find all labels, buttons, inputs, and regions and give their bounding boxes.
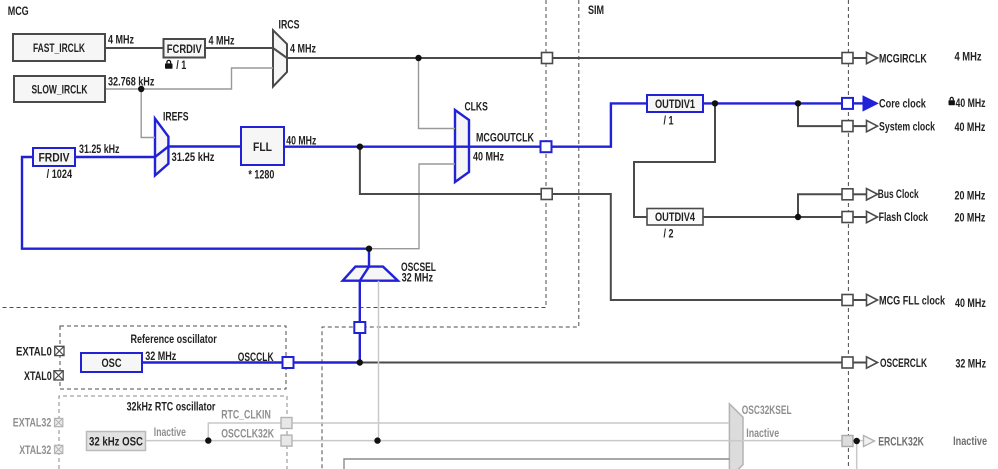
lock icon Core clock [949,97,955,105]
wire FAST_IRCLK to FCRDIV [105,47,164,49]
wire IRCS branch to CLKS input 1 [419,58,456,129]
svg-text:FCRDIV: FCRDIV [167,42,202,56]
connector square MCGOUTCLK blue [541,141,552,152]
junction dot Core/System split [795,100,801,106]
connector square OSCCLK at reference oscillator boundary [283,357,294,368]
svg-text:32 MHz: 32 MHz [956,357,987,371]
svg-text:RTC_CLKIN: RTC_CLKIN [221,408,271,422]
wire Bus Clock stub to arrow [854,193,867,195]
svg-text:Reference oscillator: Reference oscillator [131,332,218,346]
box OUTDIV1 [647,95,703,112]
wire SLOW_IRCLK to IRCS [105,68,273,89]
junction dot OUTDIV1 out to OUTDIV4 [712,100,718,106]
svg-text:40 MHz: 40 MHz [955,296,986,310]
svg-text:/ 1024: / 1024 [47,167,73,181]
svg-text:XTAL32: XTAL32 [19,443,51,457]
svg-text:32 MHz: 32 MHz [402,270,433,284]
svg-text:40 MHz: 40 MHz [956,96,986,110]
svg-text:OSCCLK: OSCCLK [238,350,274,364]
svg-text:OSC32KSEL: OSC32KSEL [742,403,792,417]
svg-text:FRDIV: FRDIV [39,151,70,165]
wire IRCS internal route [273,48,287,58]
arrow Bus Clock [867,189,878,200]
svg-text:XTAL0: XTAL0 [24,369,52,383]
SIM region dashed border [322,0,579,469]
connector square on OSCSEL riser at boundary [354,322,365,333]
mux IRCS [273,30,287,86]
box FCRDIV [164,39,206,58]
svg-text:20 MHz: 20 MHz [955,189,986,203]
svg-text:ERCLK32K: ERCLK32K [878,435,924,449]
svg-text:CLKS: CLKS [465,100,488,114]
svg-text:/ 1: / 1 [664,113,674,127]
wire System clock stub to arrow [854,125,867,127]
arrow System clock [867,120,878,131]
box 32 kHz OSC [87,432,146,451]
wire RTC_CLKIN branch [208,423,729,441]
box OUTDIV4 [647,209,703,226]
junction dot MCGIRCLK to CLKS branch [415,55,421,61]
svg-text:SLOW_IRCLK: SLOW_IRCLK [32,83,88,97]
svg-text:FAST_IRCLK: FAST_IRCLK [33,41,85,55]
junction dot OSCCLK32K to OSCSEL branch [374,437,380,443]
Reference oscillator dashed box [60,326,286,389]
svg-text:OUTDIV4: OUTDIV4 [655,210,695,224]
mux CLKS [455,110,469,182]
svg-text:Bus Clock: Bus Clock [878,187,919,201]
svg-text:MCG: MCG [8,4,29,18]
wire MCG FLL clock stub to arrow [854,299,867,301]
svg-text:MCG FLL clock: MCG FLL clock [879,294,945,308]
svg-text:/ 1: / 1 [176,58,186,72]
svg-text:MCGOUTCLK: MCGOUTCLK [476,130,534,144]
junction dot 32 kHz OSC output split [205,437,211,443]
SIM output boundary dashed line [847,0,849,469]
svg-text:OSCERCLK: OSCERCLK [880,356,927,370]
wire OSCSEL input 2 from OSCCLK32K [378,281,380,441]
svg-text:Inactive: Inactive [154,425,186,439]
svg-text:32kHz RTC oscillator: 32kHz RTC oscillator [127,400,216,414]
svg-text:4 MHz: 4 MHz [955,49,982,63]
svg-text:SIM: SIM [588,3,604,17]
svg-text:Core clock: Core clock [879,97,926,111]
junction dot Bus/Flash split [795,214,801,220]
wire OSCERCLK stub to arrow [854,362,867,364]
svg-text:OSCCLK32K: OSCCLK32K [221,427,274,441]
connector square RTC_CLKIN [281,418,292,429]
svg-text:20 MHz: 20 MHz [955,211,986,225]
svg-text:32.768 kHz: 32.768 kHz [108,74,154,88]
svg-text:OUTDIV1: OUTDIV1 [655,97,695,111]
arrow OSCERCLK [867,357,878,368]
lock icon FCRDIV [165,60,173,68]
arrow ERCLK32K [864,436,875,447]
arrow Flash Clock [867,211,878,222]
svg-text:40 MHz: 40 MHz [955,120,986,134]
svg-text:/ 2: / 2 [664,227,674,241]
wire FLL output branch to MCG FLL clock [360,147,842,300]
svg-text:Inactive: Inactive [746,426,779,440]
svg-text:4 MHz: 4 MHz [290,42,316,56]
arrow MCGIRCLK [867,52,878,63]
wire OUTDIV4 input [634,103,715,217]
wire SLOW_IRCLK branch to IREFS [141,89,155,138]
box FRDIV [33,148,75,166]
wire Bus Clock branch [798,194,842,217]
mux OSC32KSEL [729,404,743,469]
svg-text:System clock: System clock [879,120,935,134]
svg-text:MCGIRCLK: MCGIRCLK [879,51,927,65]
svg-text:31.25 kHz: 31.25 kHz [172,150,215,164]
wire OSCSEL branch to CLKS input 3 [369,164,455,249]
mux OSCSEL [343,267,398,281]
box FAST_IRCLK [13,34,105,61]
svg-text:32 kHz OSC: 32 kHz OSC [89,434,143,448]
box OSC [81,353,142,372]
wire OSC32KSEL input 3 [344,459,729,469]
svg-text:4 MHz: 4 MHz [108,33,134,47]
junction dot SLOW_IRCLK split [138,86,144,92]
arrow Core clock (blue filled) [863,96,878,111]
arrow MCG FLL clock [867,294,878,305]
svg-text:40 MHz: 40 MHz [473,149,504,163]
connector square Flash Clock output [842,212,853,223]
svg-text:40 MHz: 40 MHz [286,133,316,147]
wire OSC output OSCCLK [142,361,360,363]
wire FCRDIV to IRCS [205,47,273,49]
wire OSCSEL output to FRDIV loop [22,157,369,249]
wire OUTDIV4 output to Flash Clock [703,216,842,218]
connector square OSCERCLK output [842,357,853,368]
connector square on MCG FLL net at MCG boundary [541,189,552,200]
mux IREFS [155,119,168,176]
svg-text:OSC: OSC [102,356,122,370]
wire MCGIRCLK stub to arrow [854,57,867,59]
connector square Core clock output [842,98,853,109]
wire System clock branch [798,103,842,126]
wire FLL to CLKS to OUTDIV1 [284,103,647,146]
wire Flash Clock stub to arrow [854,216,867,218]
wire 32 kHz OSC output OSCCLK32K net [146,440,863,442]
wire MCGIRCLK net [287,57,842,59]
32kHz RTC oscillator dashed box [59,396,287,469]
svg-text:EXTAL0: EXTAL0 [16,345,52,359]
connector square ERCLK32K output [842,436,853,447]
junction dot ERCLK32K split [854,438,860,444]
box SLOW_IRCLK [14,76,105,102]
wire ERCLK32K downward branch [856,441,858,469]
svg-text:IREFS: IREFS [163,110,189,124]
svg-text:* 1280: * 1280 [248,167,274,181]
svg-text:31.25 kHz: 31.25 kHz [79,142,120,156]
wire OSCERCLK net [360,362,842,364]
junction dot OSCCLK split [357,359,363,365]
wire Core clock stub to arrow [854,102,864,104]
wire OSCCLK riser to OSCSEL [360,249,369,363]
wire IREFS to FLL [167,145,241,147]
connector square System clock output [842,121,853,132]
svg-text:Flash Clock: Flash Clock [879,210,929,224]
wire FRDIV to IREFS [75,156,155,158]
svg-text:EXTAL32: EXTAL32 [13,416,52,430]
connector square Bus Clock output [842,189,853,200]
svg-text:32 MHz: 32 MHz [145,349,176,363]
wire IREFS internal route [155,147,168,158]
connector square MCGIRCLK output [842,53,853,64]
svg-text:IRCS: IRCS [279,18,300,32]
junction dot OSCSEL output split [366,246,372,252]
connector square MCGOUTCLK boundary on MCGIRCLK net [542,53,553,64]
connector square MCG FLL clock output [842,295,853,306]
svg-text:FLL: FLL [253,140,272,154]
wire OUTDIV1 output to Core clock [703,102,842,104]
box FLL [241,127,284,165]
MCG region dashed border [0,0,546,308]
connector square OSCCLK32K [281,435,292,446]
junction dot FLL output split [357,144,363,150]
svg-text:4 MHz: 4 MHz [209,34,235,48]
svg-text:Inactive: Inactive [953,434,987,448]
